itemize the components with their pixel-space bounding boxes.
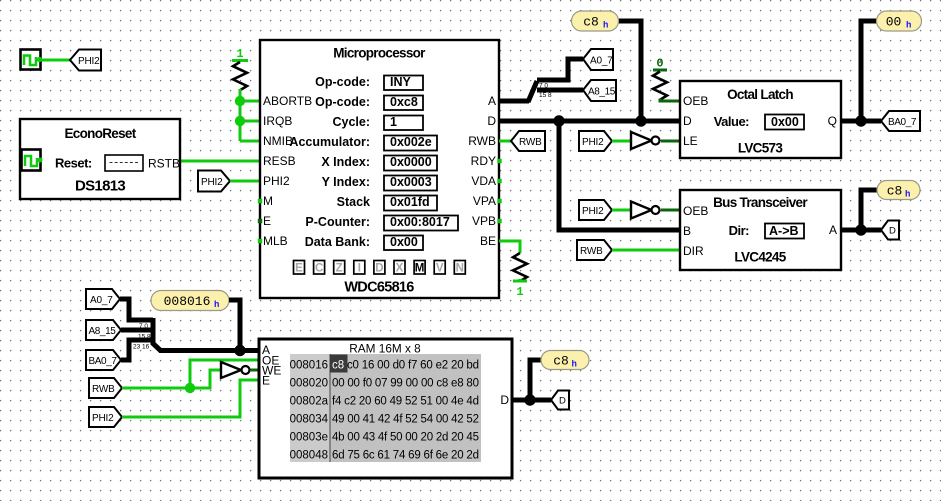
svg-text:VDA: VDA	[471, 174, 496, 188]
svg-text:E: E	[262, 374, 270, 388]
pull-up resistor R1 value 1	[232, 47, 248, 141]
wire NMIB stub	[240, 140, 260, 143]
svg-text:DIR: DIR	[683, 244, 704, 258]
bus D out of RAM	[512, 398, 551, 403]
EconoReset U2 DS1813	[20, 119, 180, 199]
inverter U8 (WE)	[221, 362, 259, 378]
wire ABORTB stub	[240, 100, 260, 103]
svg-text:PHI2: PHI2	[582, 206, 604, 217]
svg-text:0x00: 0x00	[390, 235, 418, 249]
svg-text:ABORTB: ABORTB	[263, 94, 312, 108]
svg-text:EconoReset: EconoReset	[64, 126, 136, 141]
svg-text:RWB: RWB	[580, 246, 603, 257]
tunnel PHI2 (to LE inverter)	[579, 131, 630, 151]
tunnel PHI2 to micro	[198, 171, 260, 192]
svg-text:DS1813: DS1813	[75, 178, 125, 195]
junction D bus 1	[553, 115, 564, 126]
svg-text:23 16: 23 16	[133, 344, 150, 351]
svg-text:BA0_7: BA0_7	[888, 117, 917, 128]
bus A from micro	[499, 99, 529, 104]
svg-text:008016: 008016	[164, 294, 211, 309]
svg-text:PHI2: PHI2	[78, 56, 100, 67]
bus to c8 probe (xcvr)	[861, 190, 877, 230]
svg-text:0x002e: 0x002e	[390, 135, 432, 149]
value probe c8h (D bus)	[572, 11, 619, 31]
svg-text:00: 00	[886, 15, 902, 30]
svg-text:c8: c8	[583, 15, 599, 30]
svg-text:OEB: OEB	[683, 94, 708, 108]
svg-text:1: 1	[236, 47, 243, 61]
svg-text:h: h	[572, 360, 577, 370]
svg-text:N: N	[456, 263, 464, 275]
svg-text:RDY: RDY	[471, 154, 496, 168]
svg-text:E: E	[295, 263, 303, 275]
value probe c8h (xcvr A)	[877, 181, 920, 200]
svg-text:00 00 f0 07 99 00 00 c8 e8 80: 00 00 f0 07 99 00 00 c8 e8 80	[332, 378, 479, 390]
svg-text:4b 00 43 4f 50 00 20 2d 20 45: 4b 00 43 4f 50 00 20 2d 20 45	[332, 432, 479, 444]
junction ABORTB	[235, 96, 245, 106]
svg-text:008048: 008048	[290, 450, 328, 462]
svg-text:LVC573: LVC573	[738, 141, 784, 156]
svg-text:D: D	[559, 396, 566, 407]
svg-text:D: D	[375, 263, 383, 275]
svg-text:0x00: 0x00	[771, 115, 799, 129]
svg-text:49 00 41 42 4f 52 54 00 42 52: 49 00 41 42 4f 52 54 00 42 52	[332, 414, 479, 426]
wire BA0_7 to splitter	[121, 340, 153, 360]
bus to 00 probe	[861, 21, 877, 121]
svg-text:Octal Latch: Octal Latch	[727, 87, 793, 102]
svg-text:Bus Transceiver: Bus Transceiver	[713, 195, 808, 210]
svg-text:Data Bank:: Data Bank:	[305, 235, 370, 249]
svg-text:RWB: RWB	[92, 384, 115, 395]
microprocessor U1 WDC65816	[258, 40, 502, 298]
svg-text:X Index:: X Index:	[321, 155, 370, 169]
svg-text:0xc8: 0xc8	[390, 95, 418, 109]
svg-text:PHI2: PHI2	[201, 177, 223, 188]
svg-text:6d 75 6c 61 74 69 6f 6e 20 2d: 6d 75 6c 61 74 69 6f 6e 20 2d	[332, 450, 479, 462]
octal latch U5 LVC573	[680, 81, 841, 158]
tunnel PHI2 (bottom)	[89, 407, 122, 427]
svg-text:Value:: Value:	[714, 114, 749, 129]
svg-text:RWB: RWB	[468, 134, 496, 148]
svg-text:D: D	[487, 114, 496, 128]
svg-text:Op-code:: Op-code:	[315, 75, 370, 89]
svg-text:OEB: OEB	[683, 204, 708, 218]
svg-text:A8_15: A8_15	[89, 326, 117, 337]
junction RAM D	[524, 394, 535, 405]
bus to c8 probe top	[618, 21, 641, 121]
svg-text:D: D	[889, 226, 896, 237]
bus A out of transceiver	[841, 228, 881, 233]
splitter A bus bottom	[133, 318, 161, 351]
junction D bus 2	[635, 115, 646, 126]
bus probe to A junction	[229, 300, 240, 351]
svg-text:1: 1	[390, 115, 397, 129]
svg-text:Q: Q	[828, 114, 837, 128]
clock CLK1	[21, 50, 43, 70]
svg-text:C: C	[315, 263, 323, 275]
svg-text:A0_7: A0_7	[90, 295, 113, 306]
svg-text:0x00:8017: 0x00:8017	[390, 215, 450, 229]
svg-text:h: h	[603, 21, 608, 31]
svg-text:VPB: VPB	[472, 214, 496, 228]
svg-text:E: E	[263, 214, 271, 228]
svg-text:BA0_7: BA0_7	[89, 356, 118, 367]
wire IRQB stub	[240, 120, 260, 123]
tunnel A8_15 (bottom)	[86, 320, 121, 340]
svg-text:P-Counter:: P-Counter:	[305, 215, 370, 229]
svg-text:Microprocessor: Microprocessor	[333, 46, 426, 61]
svg-text:RSTB: RSTB	[148, 157, 180, 171]
svg-text:RESB: RESB	[263, 154, 296, 168]
tunnel PHI2 (to OEB inverter)	[579, 200, 630, 220]
svg-text:A8_15: A8_15	[588, 86, 616, 97]
svg-text:c8: c8	[887, 184, 903, 199]
junction A bus	[234, 345, 245, 356]
bus to B of transceiver	[559, 121, 680, 230]
wire clock to PHI2 tunnel	[41, 59, 70, 62]
svg-text:c0 16 00 d0 f7 60 e2 20 bd: c0 16 00 d0 f7 60 e2 20 bd	[347, 360, 479, 372]
svg-text:A: A	[488, 94, 496, 108]
svg-text:1: 1	[516, 285, 523, 299]
bus A to RAM	[159, 348, 259, 353]
svg-text:15 8: 15 8	[539, 92, 552, 99]
svg-text:Stack: Stack	[337, 195, 370, 209]
svg-text:00802a: 00802a	[290, 396, 329, 408]
junction RWB	[185, 383, 195, 393]
svg-text:PHI2: PHI2	[263, 174, 290, 188]
svg-text:h: h	[906, 21, 911, 31]
inverter U6 (OEB)	[631, 202, 680, 219]
svg-text:7 0: 7 0	[139, 323, 148, 330]
pull-down resistor R2 value 0	[653, 57, 680, 102]
svg-text:Dir:: Dir:	[729, 223, 750, 238]
tunnel A8_15 (top)	[583, 80, 616, 101]
svg-text:008016: 008016	[290, 360, 328, 372]
pull-up resistor R3 value 1 (BE)	[499, 241, 527, 299]
svg-text:PHI2: PHI2	[92, 413, 114, 424]
svg-text:Z: Z	[336, 263, 343, 275]
svg-text:VPA: VPA	[473, 194, 496, 208]
svg-text:M: M	[415, 263, 425, 275]
svg-text:A: A	[829, 223, 837, 237]
svg-text:------: ------	[109, 155, 140, 169]
svg-text:f4 c2 20 60 49 52 51 00 4e 4d: f4 c2 20 60 49 52 51 00 4e 4d	[332, 396, 479, 408]
tunnel D (xcvr out)	[881, 221, 899, 240]
svg-text:D: D	[500, 393, 509, 407]
svg-text:0x01fd: 0x01fd	[390, 195, 430, 209]
tunnel A0_7 (top)	[583, 49, 613, 70]
tunnel A0_7 (bottom)	[86, 289, 120, 309]
svg-text:MLB: MLB	[263, 234, 288, 248]
svg-text:IRQB: IRQB	[263, 114, 292, 128]
bus transceiver U7 LVC4245	[680, 190, 841, 270]
tunnel RWB (bottom)	[89, 378, 122, 398]
svg-text:c8: c8	[553, 354, 569, 369]
bus Q out	[841, 119, 881, 124]
tunnel BA0_7 (bottom)	[86, 350, 121, 370]
svg-text:A->B: A->B	[769, 224, 799, 238]
svg-text:15 8: 15 8	[138, 334, 151, 341]
svg-text:X: X	[396, 263, 404, 275]
svg-text:V: V	[436, 263, 444, 275]
wire RSTB to RESB	[180, 160, 260, 163]
wire A8_15 to splitter	[121, 328, 153, 333]
svg-text:I: I	[358, 263, 361, 275]
svg-text:WDC65816: WDC65816	[344, 280, 414, 296]
svg-text:Op-code:: Op-code:	[315, 95, 370, 109]
junction A out	[855, 224, 866, 235]
wire RWB to OE and inverter	[122, 360, 259, 388]
tunnel PHI2 (clock source)	[70, 50, 101, 71]
svg-text:LVC4245: LVC4245	[734, 250, 786, 265]
tunnel RWB (micro output)	[499, 131, 545, 151]
wire PHI2 to E	[122, 380, 259, 417]
svg-text:Accumulator:: Accumulator:	[289, 135, 370, 149]
svg-text:INY: INY	[390, 75, 412, 89]
svg-text:LE: LE	[683, 134, 698, 148]
svg-text:Reset:: Reset:	[55, 156, 92, 171]
svg-text:D: D	[683, 114, 692, 128]
svg-text:0x0003: 0x0003	[390, 175, 432, 189]
value probe c8h (RAM D)	[541, 351, 589, 370]
junction Q	[855, 115, 866, 126]
svg-text:008034: 008034	[290, 414, 329, 426]
svg-text:0: 0	[656, 57, 663, 71]
svg-text:PHI2: PHI2	[582, 137, 604, 148]
svg-text:0x0000: 0x0000	[390, 155, 432, 169]
svg-text:Y Index:: Y Index:	[322, 175, 370, 189]
value probe 00h (BA bus)	[877, 11, 922, 31]
svg-text:008020: 008020	[290, 378, 328, 390]
svg-text:h: h	[905, 190, 910, 200]
tunnel D (RAM out)	[551, 391, 569, 410]
svg-text:Cycle:: Cycle:	[332, 115, 370, 129]
svg-text:c8: c8	[332, 360, 344, 372]
svg-text:B: B	[683, 224, 691, 238]
svg-text:7 0: 7 0	[539, 83, 548, 90]
tunnel RWB (to DIR)	[577, 240, 680, 260]
junction IRQB	[235, 116, 245, 126]
svg-text:A0_7: A0_7	[590, 55, 613, 66]
bus to c8 probe (RAM D)	[530, 360, 541, 400]
svg-text:BE: BE	[480, 234, 496, 248]
splitter A bus top	[528, 59, 583, 102]
tunnel BA0_7 (latch out)	[881, 111, 920, 131]
wire A0_7 to splitter	[120, 299, 153, 320]
svg-text:00803e: 00803e	[290, 432, 328, 444]
inverter U4 (LE)	[631, 132, 680, 149]
svg-text:RWB: RWB	[519, 137, 542, 148]
value probe 008016h (A bus)	[151, 291, 229, 311]
svg-text:h: h	[214, 300, 219, 310]
svg-text:M: M	[263, 194, 273, 208]
RAM U9 16M x 8	[259, 339, 512, 478]
bus D from micro to latch	[499, 119, 680, 124]
svg-text:RAM 16M x 8: RAM 16M x 8	[349, 342, 421, 356]
